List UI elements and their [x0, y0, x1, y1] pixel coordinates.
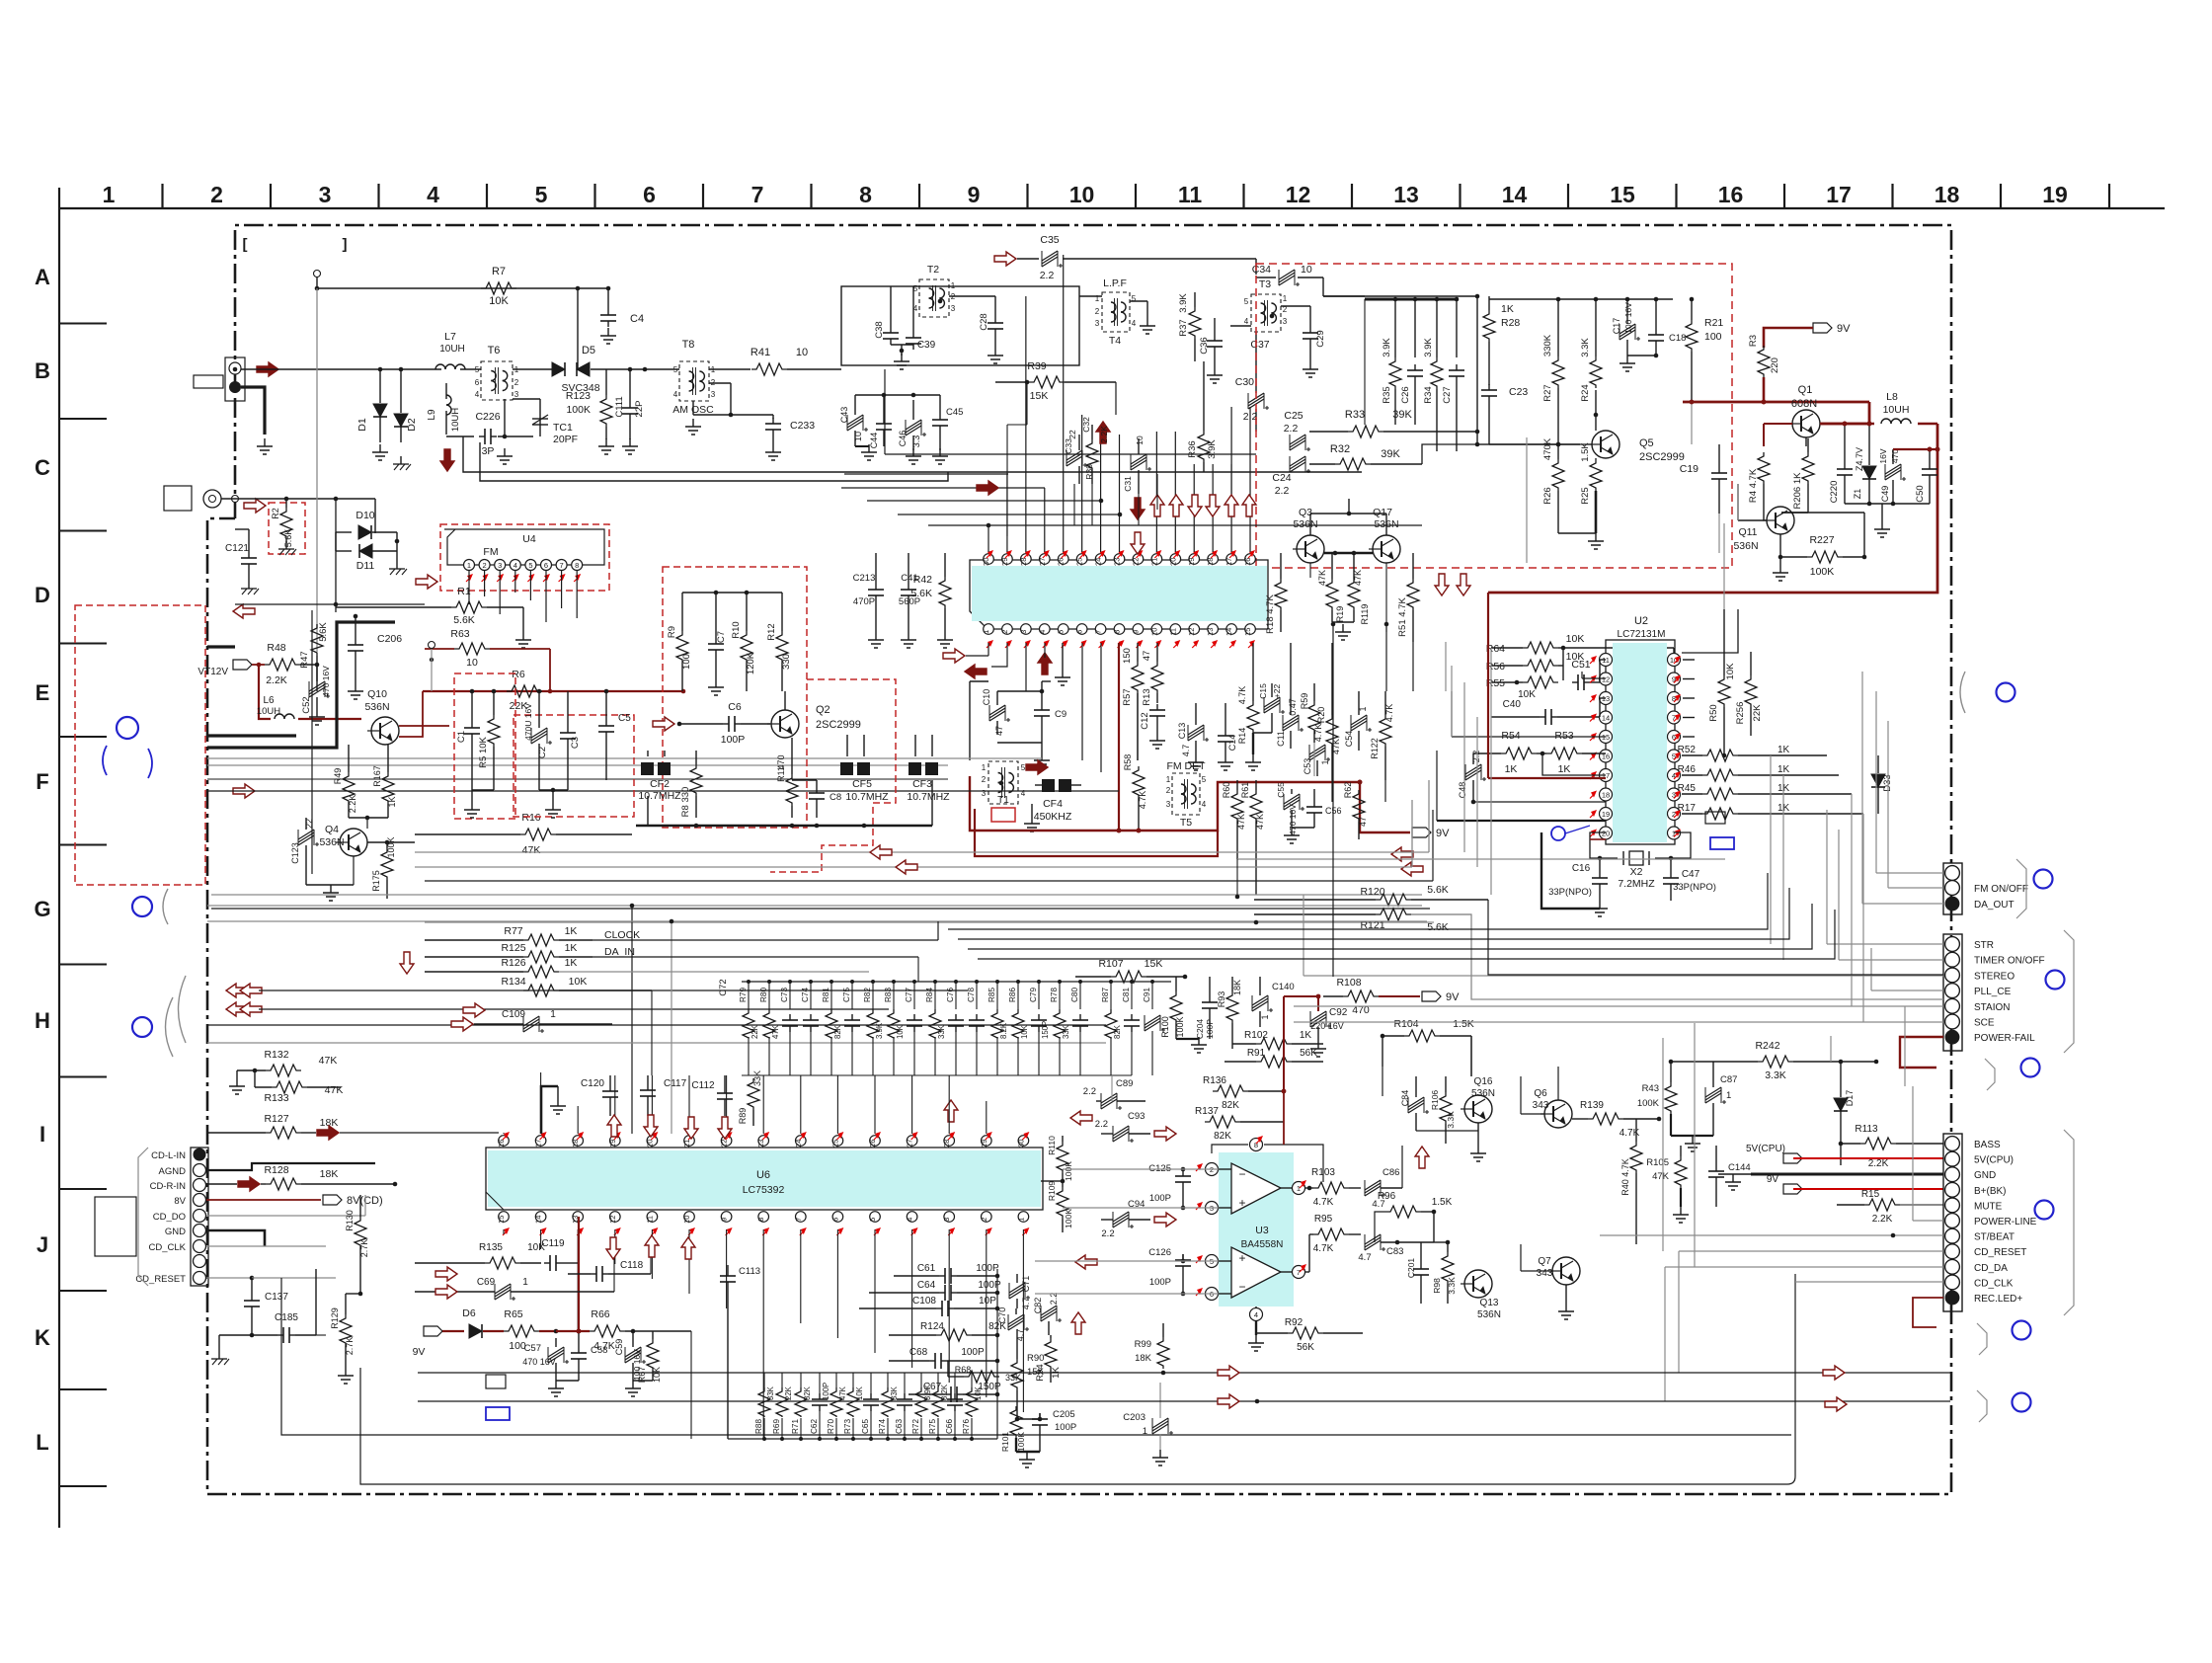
svg-text:R206 1K: R206 1K: [1792, 472, 1803, 510]
svg-text:14: 14: [1502, 182, 1528, 207]
svg-text:22: 22: [720, 1140, 729, 1148]
svg-text:14: 14: [1224, 628, 1233, 636]
svg-text:R77: R77: [504, 925, 522, 937]
svg-text:D6: D6: [462, 1307, 476, 1319]
arrows above U6: [607, 1115, 621, 1137]
U6 top pins: [499, 1136, 510, 1147]
svg-text:R133: R133: [264, 1092, 288, 1104]
svg-text:1K: 1K: [565, 957, 578, 969]
svg-text:470 16V: 470 16V: [321, 666, 331, 697]
resistor R90: [1011, 1359, 1023, 1390]
vertical feeds CN1: [1875, 691, 1877, 873]
svg-text:R18 4.7K: R18 4.7K: [1265, 594, 1276, 634]
cap C123: [298, 832, 314, 842]
svg-text:C1: C1: [456, 731, 467, 743]
maroon R136 net: [1284, 995, 1318, 997]
svg-text:C18: C18: [1669, 333, 1686, 344]
cap C61: [939, 1275, 945, 1277]
diode D6: [442, 1330, 464, 1332]
svg-text:C74: C74: [801, 988, 810, 1002]
resistor R17: [1702, 808, 1738, 820]
svg-text:CD_CLK: CD_CLK: [149, 1242, 187, 1253]
svg-text:AGND: AGND: [159, 1166, 187, 1177]
cap C44: [883, 418, 885, 424]
svg-text:CD_DO: CD_DO: [153, 1212, 186, 1223]
svg-text:16: 16: [1718, 182, 1744, 207]
svg-text:R120: R120: [1360, 886, 1384, 898]
U3 pin6: [1206, 1288, 1219, 1301]
gray bracket E right: [1960, 672, 1965, 713]
gnd T8: [692, 419, 694, 427]
svg-text:2: 2: [210, 182, 223, 207]
wire POWER-LINE: [1913, 1220, 1943, 1222]
svg-text:R132: R132: [264, 1049, 288, 1061]
J white box: [95, 1197, 136, 1256]
grid ruler: [59, 207, 2165, 209]
svg-text:10K: 10K: [1725, 663, 1736, 680]
transistor Q2: [771, 710, 799, 738]
svg-text:33K: 33K: [937, 1024, 946, 1039]
svg-text:Z1: Z1: [1853, 489, 1862, 500]
gnd CF4: [1031, 804, 1033, 816]
blue circle E right: [1997, 683, 2015, 702]
wire STBEAT: [1600, 1234, 1943, 1236]
svg-text:B: B: [35, 358, 50, 383]
cap C1: [471, 722, 473, 728]
IC U6 outline: [486, 1148, 1043, 1210]
zener Z1: [1862, 466, 1876, 479]
svg-text:R61: R61: [1240, 782, 1250, 799]
svg-text:R19: R19: [1335, 606, 1345, 623]
blue circle G: [132, 897, 152, 916]
svg-text:18: 18: [571, 1140, 580, 1148]
opamp B triangle: [1231, 1247, 1281, 1298]
svg-text:R65: R65: [504, 1308, 522, 1320]
wire H bus5: [207, 1024, 1106, 1026]
svg-text:D1: D1: [356, 418, 368, 432]
filter CF4: [1042, 779, 1055, 792]
svg-text:FM ON/OFF: FM ON/OFF: [1974, 884, 2028, 895]
CN3 bracket: [2064, 1130, 2074, 1315]
vert line in left box: [311, 610, 313, 874]
resistor R167: [382, 772, 394, 804]
svg-text:10: 10: [1301, 264, 1312, 276]
cap C12: [1156, 704, 1158, 710]
filter CF5: [840, 762, 853, 775]
transistor Q1: [1792, 410, 1820, 437]
red dashed box left: [75, 605, 205, 885]
svg-text:C17: C17: [1612, 318, 1621, 335]
svg-text:C81: C81: [1122, 988, 1131, 1002]
svg-text:47K: 47K: [319, 1055, 338, 1067]
wire pin17: [1542, 753, 1606, 775]
svg-text:C39: C39: [917, 340, 936, 351]
maroon 9V tag mid: [1360, 782, 1410, 832]
svg-text:CF4: CF4: [1043, 798, 1063, 810]
wire Q1 base: [1805, 437, 1807, 446]
resistor R45: [1702, 788, 1738, 800]
svg-text:17: 17: [1826, 182, 1852, 207]
svg-text:5: 5: [673, 365, 678, 374]
cap C51: [1572, 681, 1578, 683]
svg-text:R137: R137: [1195, 1106, 1219, 1117]
svg-text:C35: C35: [1040, 234, 1059, 246]
svg-text:R53: R53: [1554, 730, 1573, 742]
svg-text:1: 1: [1166, 775, 1171, 784]
svg-text:1: 1: [467, 561, 471, 570]
svg-text:10K: 10K: [1566, 633, 1585, 645]
svg-text:9V: 9V: [1446, 991, 1460, 1003]
wire F right gray: [1237, 858, 1725, 860]
wire H bus3: [207, 905, 1422, 907]
svg-text:R88: R88: [754, 1419, 763, 1434]
svg-text:100 16V: 100 16V: [1623, 302, 1633, 334]
maroon up pin13: [578, 1217, 580, 1331]
opamp A triangle: [1231, 1163, 1281, 1214]
svg-text:D5: D5: [582, 345, 595, 356]
blue parens left box: [103, 746, 107, 775]
svg-text:C28: C28: [979, 313, 989, 330]
resistor R109: [1057, 1187, 1068, 1219]
resistor R58: [1133, 766, 1145, 798]
AGND wire: [206, 1163, 375, 1170]
svg-text:R227: R227: [1809, 534, 1834, 546]
svg-text:C52: C52: [301, 696, 312, 713]
svg-text:470: 470: [776, 754, 786, 769]
wires D right cluster: [1412, 642, 1414, 691]
svg-text:6: 6: [475, 378, 480, 387]
svg-text:2.2: 2.2: [1275, 485, 1290, 497]
capacitor C37 wire: [1230, 325, 1251, 327]
svg-text:R63: R63: [450, 628, 469, 640]
arrow to pin1: [943, 649, 965, 663]
svg-text:C59: C59: [614, 1339, 624, 1356]
connector CN1 box: [1943, 863, 1962, 914]
svg-text:343: 343: [1537, 1268, 1553, 1279]
resistor R65: [504, 1325, 539, 1337]
svg-text:C58: C58: [591, 1345, 607, 1356]
svg-text:R58: R58: [1123, 754, 1133, 771]
svg-text:4.7: 4.7: [1181, 745, 1191, 757]
svg-text:U3: U3: [1255, 1225, 1269, 1236]
svg-text:STAION: STAION: [1974, 1002, 2010, 1013]
svg-text:CD_DA: CD_DA: [1974, 1263, 2008, 1274]
svg-text:C50: C50: [1915, 485, 1926, 502]
svg-text:R5 10K: R5 10K: [478, 736, 489, 767]
svg-text:47K: 47K: [838, 1386, 847, 1400]
svg-text:3: 3: [498, 561, 502, 570]
wire R7 net: [317, 287, 578, 289]
svg-text:470K: 470K: [1542, 437, 1553, 460]
svg-text:5: 5: [868, 1218, 877, 1222]
diode D1: [379, 369, 381, 403]
capacitor C24+R32: [1290, 459, 1305, 469]
svg-text:18K: 18K: [1135, 1353, 1152, 1364]
svg-text:R256: R256: [1735, 702, 1746, 725]
svg-text:8V(CD): 8V(CD): [347, 1195, 383, 1207]
cap C70: [1008, 1317, 1024, 1327]
cap C87: [1705, 1090, 1721, 1100]
svg-text:R16: R16: [521, 812, 540, 824]
svg-text:82K: 82K: [1113, 1024, 1122, 1039]
resistor R110: [1057, 1142, 1068, 1173]
wire X2 gnd drop: [1541, 832, 1600, 909]
maroon arrow C mid: [977, 481, 998, 495]
blue circle low1: [2013, 1321, 2031, 1340]
svg-text:C57: C57: [524, 1343, 541, 1354]
inductor L6: [275, 714, 284, 719]
resistor R77: [523, 934, 559, 946]
svg-text:R75: R75: [928, 1419, 937, 1434]
svg-text:27: 27: [906, 1140, 914, 1148]
svg-text:]: ]: [343, 236, 348, 253]
resistor R20: [1326, 715, 1338, 747]
cap C113: [727, 1270, 729, 1276]
cap C10: [989, 708, 1005, 718]
svg-text:R130: R130: [345, 1210, 355, 1231]
arrow G left dbl: [226, 984, 248, 997]
long vert 1350: [1332, 624, 1334, 977]
wire bottomA: [418, 1372, 1950, 1374]
gnd Z1 bank: [1845, 503, 1930, 505]
resistor R52: [1702, 750, 1738, 761]
svg-text:C8: C8: [829, 792, 841, 803]
cap C40: [1540, 716, 1545, 718]
verticals right area: [1830, 1036, 1832, 1062]
svg-text:R101: R101: [1000, 1432, 1010, 1453]
svg-text:2: 2: [483, 561, 487, 570]
svg-text:R1: R1: [457, 586, 471, 597]
cap C67: [945, 1393, 951, 1395]
cap bank top bus: [742, 981, 1171, 983]
cap C201: [1420, 1263, 1422, 1269]
inductor L9: [445, 383, 447, 399]
arrow G bus2: [896, 860, 917, 874]
blue circle left box: [117, 717, 138, 739]
maroon recled loop: [1913, 1298, 1943, 1327]
svg-text:R107: R107: [1098, 958, 1123, 970]
bus T3 top: [1365, 298, 1459, 301]
svg-text:DA_IN: DA_IN: [604, 946, 635, 958]
svg-text:R9: R9: [667, 626, 677, 638]
resistor R227: [1807, 551, 1843, 563]
svg-text:1: 1: [1283, 294, 1288, 303]
resistor R61: [1250, 790, 1262, 822]
svg-text:C32: C32: [1081, 417, 1091, 433]
resistor R11: [786, 774, 798, 806]
svg-text:330K: 330K: [1542, 334, 1553, 356]
svg-text:47: 47: [1142, 651, 1152, 662]
resistor R125: [523, 951, 559, 963]
svg-text:C233: C233: [790, 420, 815, 432]
svg-text:C24: C24: [1272, 472, 1291, 484]
svg-text:J: J: [37, 1232, 48, 1257]
svg-text:L7: L7: [444, 331, 456, 343]
svg-text:R33: R33: [1345, 409, 1365, 421]
cap C69: [495, 1287, 511, 1297]
svg-text:2: 2: [514, 378, 519, 387]
svg-text:5.6K: 5.6K: [318, 622, 329, 642]
svg-text:82K: 82K: [1214, 1131, 1231, 1142]
svg-text:3.9K: 3.9K: [1423, 338, 1434, 357]
svg-text:9: 9: [720, 1218, 729, 1222]
svg-text:C19: C19: [1680, 463, 1698, 475]
blue circle CN3: [2035, 1201, 2054, 1220]
cap C5: [605, 720, 607, 726]
wire R121 jog: [1411, 914, 1943, 999]
svg-text:536N: 536N: [364, 701, 389, 713]
svg-text:C84: C84: [1400, 1090, 1410, 1107]
CN1 pins: [1945, 866, 1960, 881]
wire R61 tail: [1254, 920, 1259, 925]
svg-text:D2: D2: [406, 418, 418, 432]
svg-text:100P: 100P: [822, 1383, 830, 1400]
svg-text:C206: C206: [377, 633, 402, 645]
svg-text:C40: C40: [1503, 699, 1522, 710]
svg-text:Q7: Q7: [1538, 1256, 1551, 1267]
wire bus971: [978, 910, 1835, 959]
svg-text:2: 2: [980, 1218, 988, 1222]
wire T1 left: [969, 681, 971, 760]
svg-text:1: 1: [982, 630, 990, 634]
resistor R103: [1313, 1182, 1349, 1194]
svg-text:C111: C111: [614, 396, 625, 417]
svg-text:C220: C220: [1829, 481, 1840, 504]
svg-text:R129: R129: [330, 1307, 340, 1329]
capacitor C226: [446, 436, 474, 437]
wire R33 right: [1476, 432, 1478, 444]
white box K: [486, 1375, 506, 1388]
svg-text:13: 13: [1206, 628, 1215, 636]
gnd T2a: [901, 345, 903, 356]
svg-text:14: 14: [534, 1216, 543, 1224]
row C horizontals: [844, 473, 1008, 475]
svg-text:4.7K: 4.7K: [1237, 686, 1247, 705]
pin6 drop: [1081, 643, 1083, 760]
cap C92: [1310, 1014, 1326, 1024]
svg-text:R127: R127: [264, 1113, 288, 1125]
vertical x321: [316, 288, 318, 652]
svg-text:30: 30: [1016, 1140, 1025, 1148]
svg-text:VT12V: VT12V: [197, 667, 228, 677]
svg-text:9V: 9V: [1767, 1174, 1779, 1185]
svg-text:C14: C14: [1227, 735, 1237, 752]
cap C13: [1188, 728, 1204, 738]
svg-text:−: −: [1238, 1167, 1245, 1181]
svg-text:R74: R74: [878, 1419, 887, 1434]
transistor Q11: [1767, 507, 1794, 534]
svg-text:LC72131M: LC72131M: [1618, 629, 1666, 640]
maroon pin20: [1590, 838, 1606, 840]
resistor R36: [1198, 431, 1210, 462]
svg-text:R41: R41: [750, 347, 770, 358]
svg-text:R126: R126: [501, 957, 525, 969]
svg-text:22P: 22P: [634, 401, 645, 418]
transformer T8: [679, 361, 709, 401]
coax jack: [203, 490, 221, 508]
svg-text:R100: R100: [1160, 1016, 1170, 1038]
svg-text:C7: C7: [716, 631, 727, 643]
U3 pin2: [1206, 1163, 1219, 1176]
svg-text:19: 19: [2042, 182, 2068, 207]
arrow D row left: [233, 604, 255, 618]
arrow H down: [400, 952, 414, 974]
resistor R9: [676, 631, 688, 663]
diode D10: [358, 525, 371, 539]
wire left long2: [316, 1334, 326, 1336]
svg-text:R17: R17: [1678, 803, 1697, 814]
wire D5-T8: [591, 368, 679, 370]
resistor R98: [1442, 1252, 1454, 1284]
svg-text:GND: GND: [165, 1227, 186, 1237]
U3 pin5: [1206, 1255, 1219, 1268]
drops C33 col: [1073, 484, 1075, 525]
resistor R39: [1029, 376, 1065, 388]
svg-text:C55: C55: [1276, 782, 1286, 798]
svg-text:12: 12: [1286, 182, 1311, 207]
svg-text:R72: R72: [911, 1419, 920, 1434]
svg-text:C93: C93: [1128, 1111, 1145, 1122]
cap C112: [724, 1087, 726, 1093]
svg-text:33P(NPO): 33P(NPO): [1673, 882, 1716, 893]
svg-text:15K: 15K: [1030, 390, 1049, 402]
filter CF3: [908, 762, 921, 775]
wire U2 right top: [1682, 609, 1738, 653]
wire q3 drop: [1309, 563, 1311, 578]
resistor R93: [1226, 991, 1238, 1023]
svg-text:5: 5: [475, 365, 480, 374]
IC U1 top pins: [984, 554, 994, 565]
maroon 9V net mid: [970, 776, 1360, 831]
arrow H right: [463, 1003, 485, 1017]
svg-text:Q6: Q6: [1534, 1088, 1547, 1099]
svg-text:CD_RESET: CD_RESET: [135, 1274, 186, 1285]
svg-text:R47: R47: [299, 651, 310, 668]
red dashed box Q5 osc: [1256, 264, 1732, 568]
resistor R50: [1718, 675, 1730, 707]
svg-text:20: 20: [1168, 558, 1177, 566]
svg-text:R136: R136: [1203, 1075, 1226, 1086]
svg-text:R26: R26: [1542, 487, 1553, 504]
svg-text:5: 5: [528, 561, 532, 570]
wire CDRESET: [1679, 1250, 1943, 1252]
CN2 bracket: [2064, 930, 2074, 1053]
svg-text:8: 8: [756, 1218, 765, 1222]
svg-text:R104: R104: [1393, 1018, 1418, 1030]
svg-text:3: 3: [319, 182, 332, 207]
flag 8V(CD): [206, 1199, 321, 1201]
svg-text:T5: T5: [1180, 817, 1192, 829]
cap C86: [1365, 1183, 1381, 1193]
svg-text:3: 3: [1166, 800, 1171, 809]
svg-text:C46: C46: [898, 431, 908, 447]
U2 left pins: [1600, 654, 1613, 667]
svg-text:100P: 100P: [1055, 1422, 1076, 1433]
capacitor C34: [1279, 273, 1295, 282]
svg-text:K: K: [35, 1325, 50, 1350]
svg-text:100K: 100K: [1064, 1161, 1073, 1181]
svg-text:450KHZ: 450KHZ: [1034, 811, 1072, 823]
svg-text:Q5: Q5: [1639, 437, 1654, 449]
svg-text:C87: C87: [1720, 1074, 1737, 1085]
svg-text:536N: 536N: [1477, 1309, 1501, 1320]
resistor R122: [1380, 715, 1391, 747]
svg-text:10: 10: [466, 657, 478, 669]
svg-text:C82: C82: [1033, 1298, 1043, 1314]
svg-text:2: 2: [1000, 630, 1009, 634]
svg-text:R49: R49: [333, 768, 343, 785]
U3 pin3: [1206, 1202, 1219, 1215]
